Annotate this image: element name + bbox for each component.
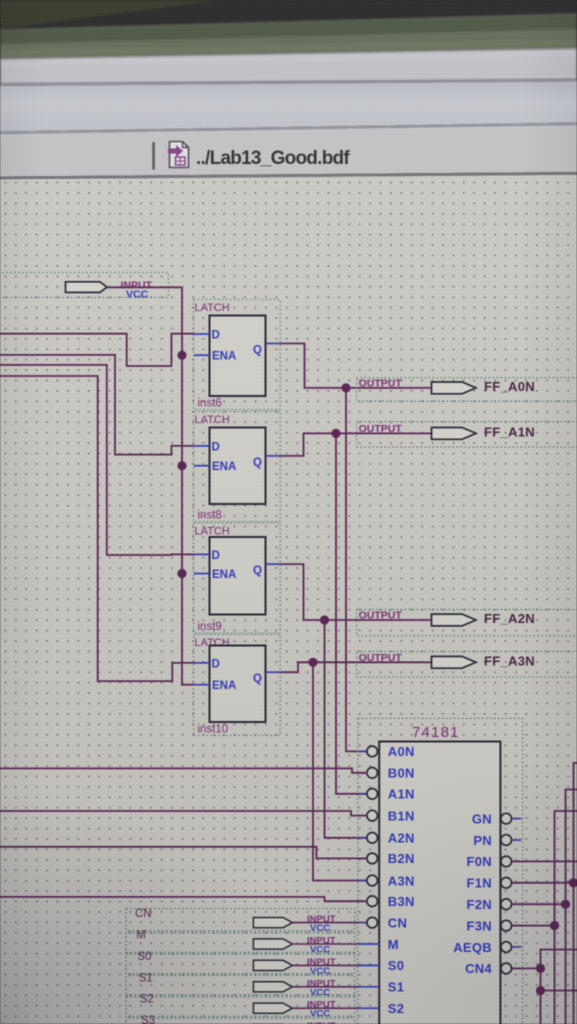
wire M to 74181 — [292, 943, 358, 945]
svg-text:A1N: A1N — [388, 787, 415, 802]
input pin symbol S0 — [253, 960, 292, 970]
latch U2 body — [210, 428, 266, 505]
74181 pin A2N — [359, 831, 415, 846]
wire net F1N vertical — [574, 763, 577, 1024]
svg-text:F0N: F0N — [467, 854, 492, 869]
74181 pin A3N — [359, 873, 415, 888]
wire D inst6 — [0, 334, 194, 366]
wire Q inst6 to FF_A0N — [281, 344, 432, 388]
wire bus down to 74181 from x=324.5 — [325, 620, 368, 838]
selection box separator row S2 — [126, 995, 355, 997]
svg-text:B2N: B2N — [388, 851, 415, 866]
74181 pin M — [359, 937, 399, 952]
input pin symbol M — [253, 939, 292, 949]
svg-text:OUTPUT: OUTPUT — [359, 652, 403, 664]
svg-text:F1N: F1N — [467, 876, 492, 891]
wire B0N — [0, 768, 367, 772]
svg-text:M: M — [388, 937, 399, 952]
wire CN4 to junction — [512, 967, 541, 969]
input pin VCC selection box — [0, 273, 169, 298]
svg-text:LATCH: LATCH — [195, 526, 230, 538]
svg-text:AEQB: AEQB — [453, 940, 492, 955]
wire CN to 74181 — [292, 922, 358, 924]
wire net F2N vertical — [566, 790, 577, 1024]
svg-text:B1N: B1N — [388, 808, 415, 823]
output pin FF_A1N symbol — [432, 428, 477, 440]
tab separator bar — [152, 142, 155, 169]
output pin FF_A0N symbol — [432, 382, 477, 394]
svg-text:inst10: inst10 — [198, 724, 229, 736]
74181 pin CN — [359, 915, 408, 930]
junction dot ENA trunk U2 — [177, 461, 186, 470]
wire lower cross at right — [541, 990, 577, 992]
latch U3 pin D stub — [194, 553, 210, 555]
svg-text:Q: Q — [253, 565, 262, 577]
junction dot inst10 — [308, 658, 317, 667]
74181 pin CN4 — [465, 961, 521, 976]
bdf file icon — [168, 142, 189, 168]
74181 pin F2N — [467, 897, 522, 912]
output pin FF_A2N selection box — [357, 609, 577, 635]
svg-text:PN: PN — [473, 833, 492, 848]
output pin FF_A0N selection box — [357, 378, 577, 401]
wire VCC pin to ENA trunk — [107, 286, 182, 288]
74181 pin B2N — [359, 851, 415, 866]
svg-text:Q: Q — [253, 457, 262, 469]
toolbar band A — [0, 47, 577, 60]
wire B3N — [0, 897, 367, 901]
74181 pin S2 — [359, 1001, 405, 1016]
output pin FF_A3N selection box — [357, 652, 577, 677]
svg-text:B3N: B3N — [388, 894, 415, 909]
74181 pin A1N — [359, 787, 415, 802]
wire Q inst10 to FF_A3N — [281, 662, 432, 672]
wire S2 to 74181 — [292, 1007, 358, 1009]
svg-text:S2: S2 — [388, 1001, 405, 1016]
svg-text:GN: GN — [472, 811, 492, 826]
selection box separator row S3 — [126, 1016, 355, 1018]
monitor bezel / dark top band — [0, 0, 577, 84]
wire net F3N vertical — [555, 811, 577, 1024]
junction dot inst6 — [341, 383, 350, 392]
74181 pin F0N — [467, 854, 522, 869]
toolbar band B — [0, 80, 577, 87]
74181 pin S1 — [359, 980, 405, 995]
latch U2 inst8 selection box — [194, 412, 281, 522]
74181 pin S0 — [359, 958, 405, 973]
wire B1N — [0, 811, 367, 816]
latch U1 pin ENA stub — [194, 354, 210, 356]
svg-text:D: D — [212, 550, 220, 562]
svg-text:74181: 74181 — [412, 724, 460, 741]
latch U4 pin D stub — [194, 662, 210, 664]
junction dot F2N — [561, 900, 570, 909]
latch U1 pin D stub — [194, 333, 210, 335]
svg-text:inst8: inst8 — [198, 510, 222, 522]
input pin symbol S1 — [253, 982, 292, 992]
wire F1N to junction — [512, 882, 574, 884]
junction dot ENA trunk U3 — [177, 569, 186, 578]
74181 pin PN — [473, 833, 521, 848]
svg-text:inst9: inst9 — [198, 621, 222, 633]
latch U3 pin Q stub — [266, 563, 282, 565]
junction dot F1N — [569, 878, 577, 887]
svg-text:D: D — [212, 330, 220, 342]
svg-text:S3: S3 — [141, 1015, 155, 1024]
svg-text:A2N: A2N — [388, 831, 415, 846]
wire bus down to 74181 from x=346.0 — [346, 388, 367, 752]
latch U4 inst10 selection box — [194, 635, 281, 736]
svg-text:M: M — [136, 930, 146, 942]
74181 pin AEQB — [453, 940, 521, 955]
input pin VCC symbol — [66, 282, 108, 293]
junction dot F3N — [550, 921, 559, 930]
junction dot CN4 — [536, 964, 545, 973]
svg-text:OUTPUT: OUTPUT — [359, 423, 403, 435]
svg-text:ENA: ENA — [212, 351, 236, 363]
74181 pin F3N — [467, 918, 522, 933]
74181 pin S3 — [359, 1022, 405, 1024]
svg-text:FF_A3N: FF_A3N — [484, 654, 535, 669]
svg-text:CN: CN — [135, 908, 152, 920]
input pin symbol CN — [253, 918, 292, 928]
svg-text:inst6: inst6 — [198, 398, 222, 410]
svg-text:F2N: F2N — [467, 897, 492, 912]
svg-text:FF_A2N: FF_A2N — [484, 611, 535, 626]
junction dot lower right — [536, 986, 545, 995]
junction dot inst9 — [320, 615, 329, 624]
wire Q inst9 to FF_A2N — [281, 564, 432, 620]
latch U3 inst9 selection box — [194, 523, 281, 633]
svg-text:ENA: ENA — [212, 461, 236, 473]
svg-text:D: D — [212, 658, 220, 670]
svg-text:FF_A1N: FF_A1N — [484, 425, 535, 440]
junction dot ENA trunk U4 — [0, 0, 1, 1]
svg-text:LATCH: LATCH — [195, 302, 230, 314]
svg-text:S2: S2 — [140, 994, 154, 1006]
green screen strip — [0, 14, 577, 58]
tab row bottom edge — [0, 172, 577, 179]
latch U1 pin Q stub — [266, 343, 282, 345]
wire F2N to junction — [512, 903, 566, 905]
svg-text:S1: S1 — [139, 972, 153, 984]
wire F3N to junction — [512, 925, 555, 927]
74181 body U5 — [379, 742, 500, 1024]
selection box separator row S0 — [126, 952, 355, 954]
svg-text:A3N: A3N — [388, 873, 415, 888]
svg-text:Q: Q — [253, 673, 262, 685]
wire S1 to 74181 — [292, 986, 358, 988]
tab row band — [0, 123, 577, 135]
svg-text:A0N: A0N — [388, 744, 415, 759]
svg-text:D: D — [212, 441, 220, 453]
latch U4 pin Q stub — [266, 671, 282, 673]
junction dot ENA trunk U1 — [177, 351, 186, 360]
latch U3 pin ENA stub — [194, 573, 210, 575]
selection box separator row S1 — [126, 974, 355, 976]
74181 pin GN — [472, 811, 522, 826]
output pin FF_A2N symbol — [432, 614, 477, 626]
74181 pin B1N — [359, 808, 415, 823]
svg-text:S1: S1 — [388, 980, 405, 995]
output pin FF_A1N selection box — [357, 422, 577, 448]
wire B2N — [0, 847, 367, 859]
74181 pin F1N — [467, 876, 522, 891]
wire bus down to 74181 from x=313.0 — [313, 662, 367, 880]
latch U3 body — [210, 537, 266, 615]
74181 selection box — [358, 718, 523, 1024]
wire D inst8 — [0, 355, 194, 455]
junction dot inst8 — [331, 429, 340, 438]
latch U1 body — [210, 316, 266, 397]
svg-text:CN4: CN4 — [465, 961, 492, 976]
wire ENA vertical trunk — [182, 287, 194, 684]
svg-text:ENA: ENA — [212, 569, 236, 581]
wire S0 to 74181 — [292, 964, 358, 966]
svg-text:F3N: F3N — [467, 918, 492, 933]
latch U2 pin ENA stub — [194, 465, 210, 467]
wire bus down to 74181 from x=336.0 — [336, 433, 367, 793]
svg-text:Q: Q — [253, 345, 262, 357]
output pin FF_A3N symbol — [432, 656, 477, 668]
74181 pin A0N — [359, 744, 415, 759]
svg-text:S0: S0 — [137, 951, 151, 963]
latch U4 pin ENA stub — [194, 684, 210, 686]
wire F0N to right edge — [512, 860, 577, 862]
input pin symbol S2 — [253, 1003, 292, 1013]
latch U2 pin D stub — [194, 445, 210, 447]
74181 pin B3N — [359, 894, 415, 909]
selection box separator row M — [126, 931, 355, 933]
svg-text:CN: CN — [388, 915, 407, 930]
svg-text:B0N: B0N — [388, 766, 415, 781]
svg-text:LATCH: LATCH — [195, 414, 230, 426]
latch U1 inst6 selection box — [194, 300, 281, 410]
svg-text:ENA: ENA — [212, 680, 236, 692]
latch U2 pin Q stub — [266, 455, 282, 457]
wire D inst9 — [0, 365, 194, 555]
wire D inst10 — [0, 376, 194, 681]
svg-text:FF_A0N: FF_A0N — [484, 379, 535, 394]
svg-text:VCC: VCC — [126, 289, 149, 301]
latch U4 body — [210, 646, 266, 723]
svg-text:OUTPUT: OUTPUT — [359, 610, 403, 622]
74181 pin B0N — [359, 766, 415, 781]
input pins group selection box — [126, 909, 355, 1024]
svg-text:S0: S0 — [388, 958, 405, 973]
svg-text:OUTPUT: OUTPUT — [359, 377, 403, 389]
wire net CN4 vertical — [541, 950, 577, 1024]
wire Q inst8 to FF_A1N — [281, 433, 432, 456]
